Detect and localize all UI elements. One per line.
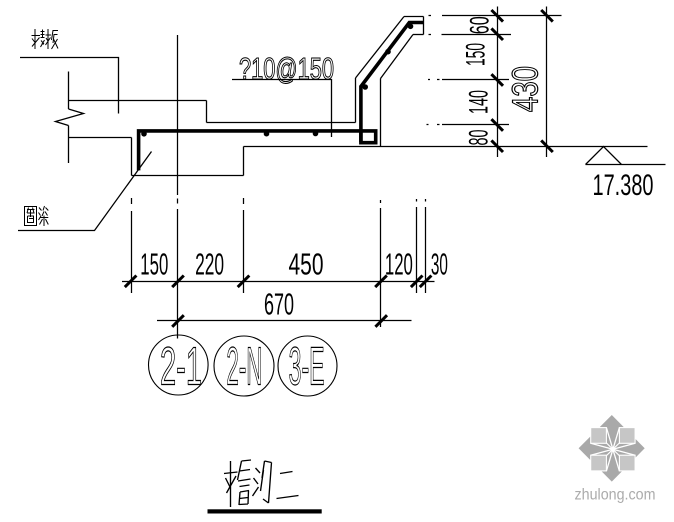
parapet notch bottom	[413, 34, 424, 36]
svg-text:430: 430	[505, 66, 546, 112]
rebar section dots	[141, 24, 413, 137]
rotated dim texts right	[461, 16, 546, 145]
leader 圈梁	[18, 152, 152, 231]
dimension line 670	[157, 320, 412, 322]
vertical dim line outer 430	[546, 7, 548, 158]
axis circle 2-1	[149, 335, 338, 396]
wall inner face lower	[68, 126, 70, 164]
ring beam bottom	[132, 175, 244, 177]
rebar gutter wall bar	[361, 23, 423, 143]
dimension line chain 150-220-450-120-30	[122, 281, 435, 283]
dim texts bottom row	[140, 51, 653, 322]
watermark white rays	[591, 428, 635, 472]
svg-text:150: 150	[140, 247, 168, 282]
svg-text:zhulong.com: zhulong.com	[575, 487, 656, 504]
svg-text:80: 80	[464, 130, 494, 146]
svg-text:450: 450	[289, 247, 324, 282]
gutter wall inner vertical	[380, 79, 382, 147]
label 圈梁 glyphs	[25, 206, 49, 226]
svg-text:?10@150: ?10@150	[239, 51, 334, 86]
svg-text:2-1: 2-1	[160, 337, 202, 397]
level marker triangle	[586, 147, 666, 165]
svg-text:2-N: 2-N	[226, 337, 262, 397]
watermark squares	[591, 428, 635, 471]
axis circle 2-N	[214, 336, 274, 396]
tick marks bottom dimension chain	[125, 276, 137, 288]
gutter wall outer diagonal	[356, 17, 405, 79]
title underline	[208, 509, 322, 513]
right extension lines	[427, 7, 562, 158]
axis circle 3-E	[278, 336, 337, 396]
svg-text:30: 30	[431, 247, 448, 282]
tick marks right dimension chain	[491, 10, 503, 22]
svg-text:60: 60	[465, 16, 495, 34]
soffit under slab	[69, 137, 132, 139]
vertical dim line inner	[497, 7, 499, 158]
slab top left	[69, 100, 207, 102]
parapet tip right edge	[423, 17, 425, 35]
svg-text:670: 670	[264, 286, 294, 321]
extension lines bottom	[122, 35, 435, 339]
ticks bottom dim line	[125, 276, 432, 327]
rebar leader line	[232, 80, 332, 138]
rebar slab bar with hook	[139, 23, 424, 171]
svg-text:150: 150	[461, 43, 491, 66]
parapet tip top	[404, 16, 424, 18]
label 楼板 leader	[20, 58, 119, 114]
svg-text:3-E: 3-E	[289, 337, 325, 397]
step down	[206, 101, 208, 123]
slab bottom and level line	[244, 146, 648, 148]
slab top right	[207, 122, 356, 124]
label 楼板 glyphs	[32, 29, 59, 49]
ring beam right face	[243, 147, 245, 176]
svg-text:17.380: 17.380	[593, 169, 654, 202]
title 檐沟二 glyphs	[224, 460, 299, 507]
svg-text:140: 140	[464, 90, 494, 114]
break symbol zigzag	[56, 109, 84, 126]
svg-text:120: 120	[385, 247, 413, 282]
svg-text:220: 220	[195, 247, 224, 282]
gutter wall outer vertical	[355, 78, 357, 123]
watermark diamond	[575, 415, 656, 504]
ring beam left face	[131, 138, 133, 176]
gutter wall inner diagonal	[381, 35, 414, 79]
wall inner face upper	[68, 72, 70, 110]
ticks right dim lines	[491, 10, 552, 152]
